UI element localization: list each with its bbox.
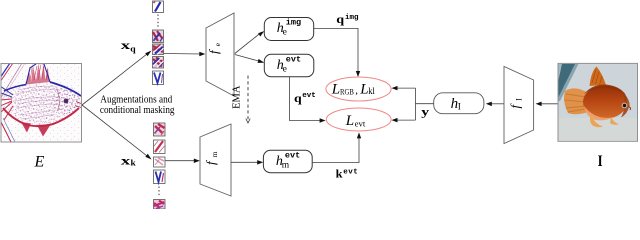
patch t1 — [153, 1, 164, 13]
svg-text:q: q — [130, 44, 136, 54]
pectoral fin — [590, 115, 603, 127]
svg-text:x: x — [121, 40, 131, 52]
box h_m^evt — [263, 150, 312, 172]
wire f_I to h_I — [489, 103, 505, 105]
svg-text:e: e — [283, 65, 287, 75]
svg-text:conditional masking: conditional masking — [100, 105, 175, 116]
back outline — [4, 85, 26, 92]
mouth — [629, 107, 631, 111]
dorsal fin — [26, 64, 50, 85]
EMA dashed arrow — [247, 76, 249, 120]
svg-text:L: L — [359, 82, 368, 98]
svg-text:q: q — [294, 93, 302, 105]
wire image to f_I — [538, 103, 558, 105]
encoder f_e trapezoid — [206, 13, 234, 96]
patch t2 — [153, 30, 164, 43]
faint background speckle — [2, 64, 81, 142]
mouth marks — [75, 102, 81, 108]
svg-text:img: img — [286, 18, 301, 28]
patch t5 — [153, 71, 164, 85]
f_I label — [507, 98, 523, 109]
head denser texture — [52, 86, 80, 114]
box h_e^img — [264, 18, 313, 41]
svg-text:I: I — [515, 98, 524, 101]
wire x_q diagonal arrow — [82, 53, 149, 105]
belly outline — [3, 108, 79, 126]
pelvic fin — [21, 122, 31, 133]
f_e label — [206, 42, 222, 54]
svg-text:,: , — [355, 85, 358, 97]
eye — [64, 99, 69, 104]
top back darker — [584, 84, 626, 95]
tail fin — [564, 88, 588, 114]
box h_I — [434, 93, 484, 114]
dotted connector — [158, 187, 160, 198]
svg-text:RGB: RGB — [340, 86, 354, 96]
svg-text:EMA: EMA — [232, 85, 243, 109]
wire patch-t3 to f_e — [164, 53, 203, 56]
body speckle — [6, 83, 81, 125]
wire q^img — [314, 28, 358, 74]
belly — [584, 106, 614, 120]
f_m label — [203, 151, 219, 165]
patch t3 (masked) — [153, 44, 164, 55]
momentum encoder f_m trapezoid — [200, 124, 231, 196]
gill — [57, 89, 59, 111]
svg-text:Augmentations and: Augmentations and — [100, 94, 172, 105]
wire x_k diagonal arrow — [82, 105, 149, 157]
tail — [0, 99, 13, 120]
patch b4 — [154, 170, 166, 184]
patch b5 — [154, 200, 166, 210]
svg-text:q: q — [336, 14, 345, 26]
svg-text:e: e — [283, 28, 287, 38]
svg-text:kl: kl — [368, 86, 375, 96]
wire patch-b3 to f_m — [165, 160, 197, 162]
ellipse L_RGB L_kl — [326, 77, 391, 101]
scale streak rows — [14, 86, 60, 119]
trapezoid f_I — [504, 66, 534, 143]
wire q^evt — [290, 77, 323, 121]
head shading — [613, 86, 630, 118]
body — [583, 85, 627, 119]
EMA label — [232, 85, 243, 109]
svg-text:m: m — [210, 151, 219, 157]
teal band — [559, 64, 564, 82]
bottom patch stack — [154, 123, 166, 209]
dorsal fin — [590, 67, 607, 87]
svg-text:k: k — [131, 158, 136, 168]
ellipse L_evt — [326, 108, 391, 131]
svg-text:I: I — [458, 103, 461, 113]
eye — [622, 103, 628, 109]
box h_e^evt — [264, 54, 314, 77]
top patch stack — [153, 1, 164, 85]
svg-text:y: y — [421, 107, 429, 119]
goldfish image I — [558, 63, 638, 141]
svg-text:k: k — [336, 169, 344, 181]
svg-text:I: I — [598, 153, 603, 170]
svg-text:evt: evt — [285, 150, 300, 160]
patch t4 (masked) — [153, 57, 164, 69]
anal fin — [37, 124, 51, 137]
svg-text:evt: evt — [286, 54, 301, 64]
wire f_m to h_m — [231, 161, 261, 163]
f_e output arrows — [235, 32, 262, 53]
tank corner diagonals top-left — [0, 63, 10, 78]
anal fin — [610, 117, 619, 125]
svg-text:m: m — [282, 161, 290, 171]
svg-text:L: L — [345, 113, 354, 129]
wire k^evt — [312, 135, 359, 162]
svg-text:evt: evt — [302, 92, 316, 100]
svg-text:img: img — [345, 14, 359, 22]
dotted connector — [157, 15, 159, 29]
patch b3 — [154, 157, 166, 167]
svg-text:E: E — [34, 154, 45, 171]
svg-text:evt: evt — [355, 118, 366, 128]
y bracket wires — [394, 88, 433, 120]
svg-text:evt: evt — [343, 169, 358, 177]
patch b2 (masked) — [154, 140, 166, 154]
patch b1 — [154, 123, 166, 136]
svg-text:L: L — [331, 82, 340, 98]
svg-text:x: x — [121, 155, 131, 167]
